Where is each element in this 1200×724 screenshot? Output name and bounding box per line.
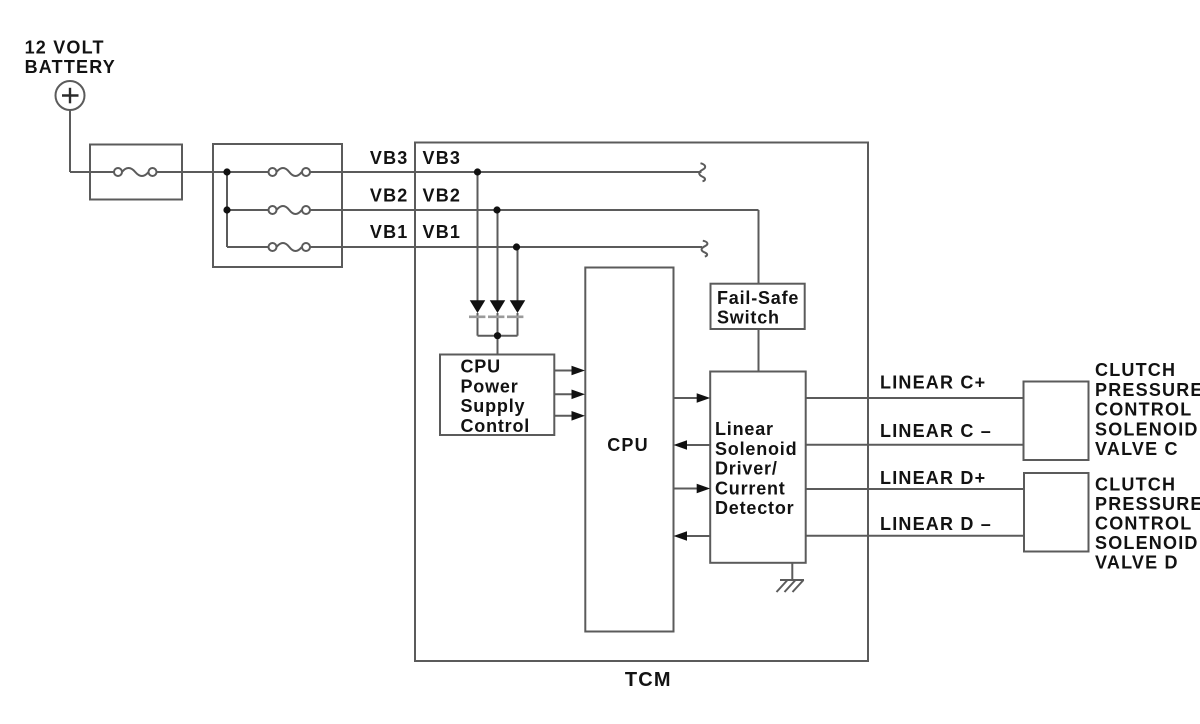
svg-text:Power: Power [461,376,519,396]
svg-text:CONTROL: CONTROL [1095,514,1192,534]
svg-text:CLUTCH: CLUTCH [1095,475,1176,495]
svg-text:Supply: Supply [461,396,526,416]
svg-text:Switch: Switch [717,308,780,328]
svg-text:VB3: VB3 [370,148,409,168]
svg-text:LINEAR C –: LINEAR C – [880,421,992,441]
svg-text:CLUTCH: CLUTCH [1095,360,1176,380]
svg-text:Driver/: Driver/ [715,459,778,479]
svg-text:LINEAR C+: LINEAR C+ [880,372,986,392]
svg-text:SOLENOID: SOLENOID [1095,419,1199,439]
svg-text:Current: Current [715,478,786,498]
svg-text:VB2: VB2 [423,186,462,206]
svg-text:SOLENOID: SOLENOID [1095,533,1199,553]
svg-text:LINEAR D+: LINEAR D+ [880,468,986,488]
svg-text:Control: Control [461,416,531,436]
svg-text:PRESSURE: PRESSURE [1095,494,1200,514]
svg-text:PRESSURE: PRESSURE [1095,380,1200,400]
svg-text:VALVE D: VALVE D [1095,552,1179,572]
svg-text:VALVE C: VALVE C [1095,439,1179,459]
svg-text:VB1: VB1 [423,222,462,242]
svg-text:LINEAR D –: LINEAR D – [880,514,992,534]
svg-text:TCM: TCM [625,669,672,691]
svg-text:Solenoid: Solenoid [715,439,797,459]
svg-text:Detector: Detector [715,498,794,518]
svg-text:12 VOLT: 12 VOLT [25,38,105,58]
svg-text:CONTROL: CONTROL [1095,400,1192,420]
svg-text:VB2: VB2 [370,186,409,206]
svg-text:VB3: VB3 [423,148,462,168]
svg-text:Linear: Linear [715,419,774,439]
svg-text:BATTERY: BATTERY [25,57,116,77]
svg-text:CPU: CPU [461,357,501,377]
svg-text:VB1: VB1 [370,222,409,242]
svg-text:CPU: CPU [607,435,649,455]
svg-text:Fail-Safe: Fail-Safe [717,288,799,308]
